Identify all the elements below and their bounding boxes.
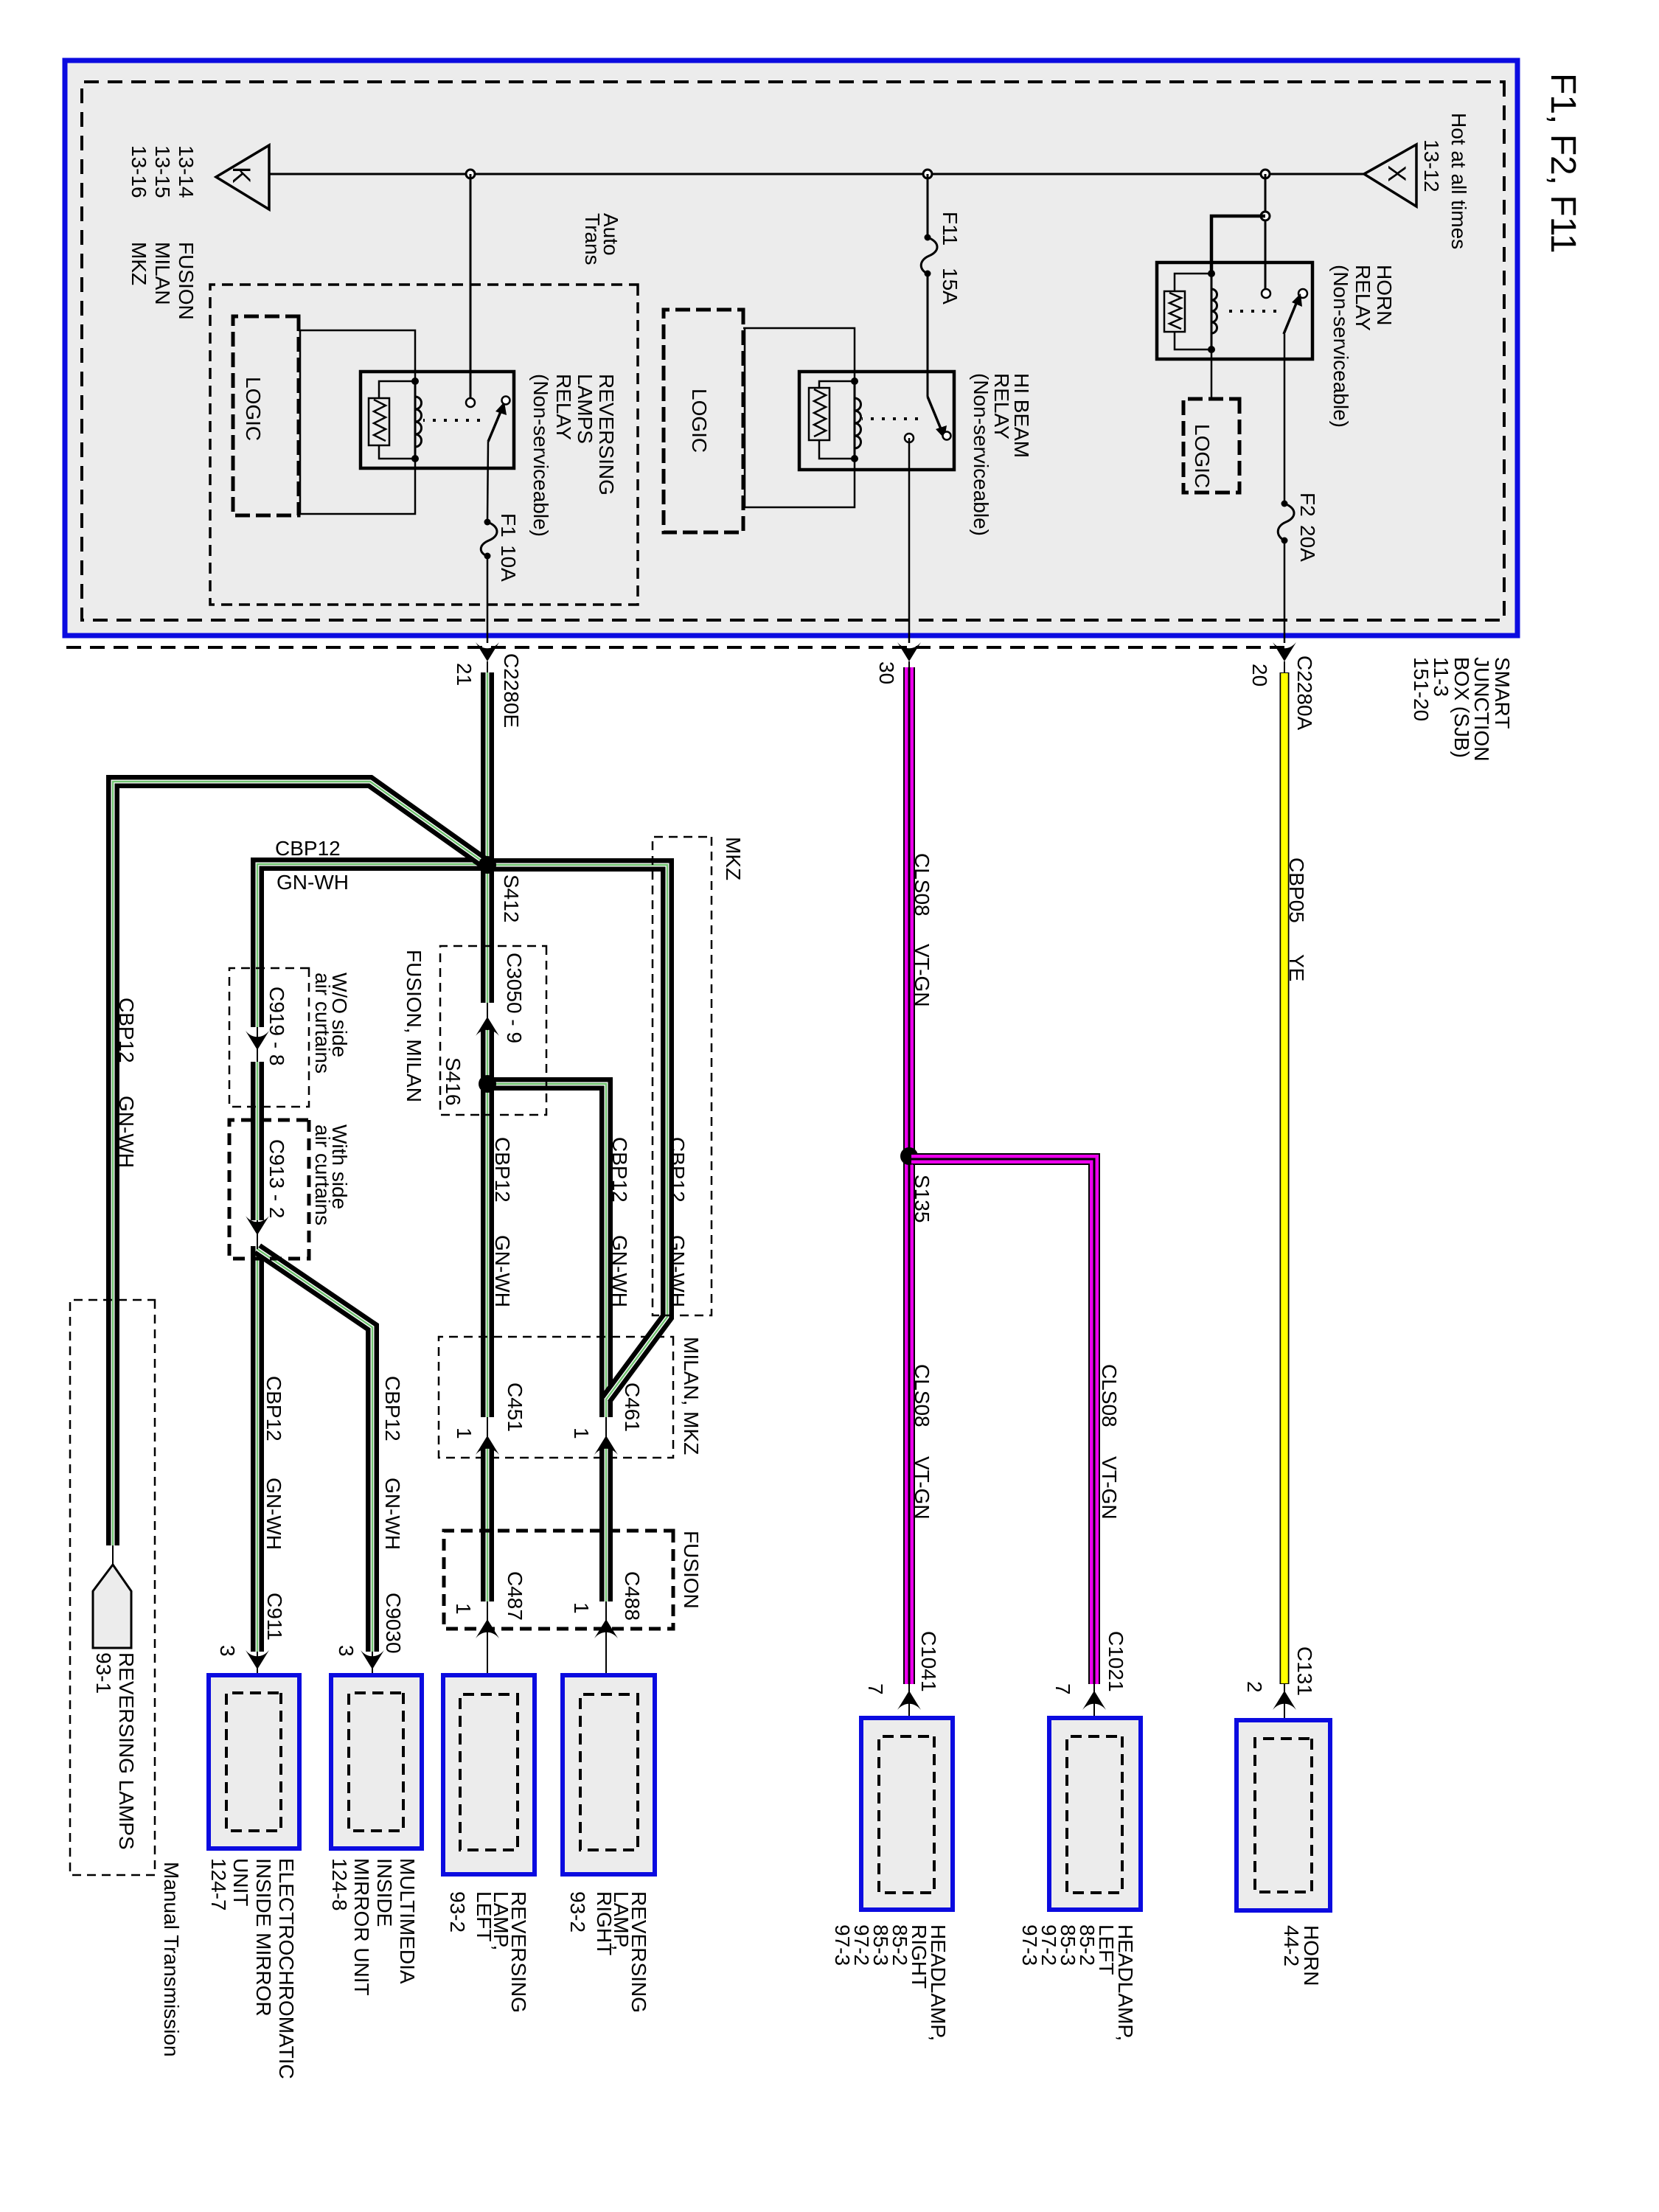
svg-text:1: 1 [570,1602,593,1614]
svg-text:C1041: C1041 [917,1631,940,1692]
wire reversing output [487,442,488,522]
svg-text:air curtains: air curtains [311,973,334,1074]
svg-text:Manual Transmission: Manual Transmission [160,1862,183,2057]
relay HI BEAM box [799,372,954,470]
svg-text:YE: YE [1285,954,1308,981]
logic box hi-beam [664,310,743,532]
relay REVERSING LAMPS box [361,372,514,468]
svg-text:MKZ: MKZ [128,242,150,285]
svg-text:CLS08: CLS08 [911,1364,933,1427]
option box Manual Transmission [70,1300,155,1875]
component REVERSING LAMP RIGHT box [563,1675,655,1874]
fuse F11 15A [925,234,931,241]
svg-text:HORN: HORN [1373,265,1396,325]
SJB outside dashed boundary [66,646,1284,649]
junction dot horn coil tap [1261,212,1270,220]
wire into reversing lamp left [487,1638,488,1695]
svg-text:GN-WH: GN-WH [381,1478,404,1550]
connector C919-8 arrow [257,1027,258,1062]
hi-beam relay coil [854,381,856,459]
hi-beam relay switch [928,397,942,431]
option box MKZ [653,837,712,1315]
svg-text:C2280A: C2280A [1293,655,1316,731]
svg-text:LOGIC: LOGIC [1191,424,1214,488]
svg-text:CLS08: CLS08 [911,853,933,917]
logic box reversing [233,316,299,515]
svg-text:13-14: 13-14 [175,145,198,198]
connector C9030 arrow [372,1652,373,1674]
wire to exit [1284,540,1286,643]
svg-text:LOGIC: LOGIC [688,389,711,453]
splice S416 [479,1075,496,1093]
SJB blue box [65,60,1517,636]
svg-text:1: 1 [453,1427,476,1439]
connector C1041 arrow [908,1684,910,1711]
horn relay coil resistor [1175,274,1211,291]
svg-text:C488: C488 [621,1571,644,1621]
wire reversing feed [470,174,472,403]
svg-text:CBP05: CBP05 [1285,858,1308,923]
svg-text:(Non-serviceable): (Non-serviceable) [529,374,552,537]
svg-text:VT-GN: VT-GN [911,944,933,1007]
component MULTIMEDIA box [331,1675,422,1848]
logic box horn [1183,399,1239,493]
junction dot reversing feed [466,170,475,178]
svg-text:CBP12: CBP12 [666,1137,689,1203]
fuse F1 10A [484,519,491,526]
svg-text:RELAY: RELAY [1352,265,1374,331]
label HORN RELAY [1329,265,1396,428]
connector C2280E exit arrow [476,642,499,661]
svg-text:RELAY: RELAY [990,373,1013,439]
wire horn relay output [1284,333,1284,335]
svg-text:MIRROR UNIT: MIRROR UNIT [350,1858,373,1996]
component HEADLAMP LEFT box [1049,1718,1141,1910]
component HEADLAMP RIGHT box [861,1718,953,1910]
svg-text:S135: S135 [911,1175,933,1222]
svg-text:INSIDE: INSIDE [373,1858,396,1927]
svg-text:F2: F2 [1296,493,1319,517]
connector C131 arrow [1284,1684,1285,1709]
wire branch S416 up to C461/C488 [487,1084,606,1601]
svg-text:13-16: 13-16 [128,145,150,198]
svg-text:30: 30 [875,661,898,684]
component ELECTROCHROMATIC box [209,1675,299,1848]
svg-text:X: X [1382,165,1411,182]
svg-text:10A: 10A [497,545,520,582]
svg-text:C3050 - 9: C3050 - 9 [503,953,526,1043]
svg-text:INSIDE MIRROR: INSIDE MIRROR [252,1858,275,2017]
horn relay dashed link [1228,310,1276,313]
svg-text:Trans: Trans [581,213,604,265]
wire tail to pentagon [112,1545,114,1566]
svg-text:20: 20 [1248,664,1271,686]
wire CBP05 YE yellow [1280,672,1290,1684]
svg-text:C9030: C9030 [382,1593,405,1654]
wire bus [270,173,1364,175]
svg-text:3: 3 [335,1645,358,1657]
svg-text:VT-GN: VT-GN [911,1456,933,1520]
label HI BEAM RELAY [970,373,1033,536]
connector C2280A exit arrow [1273,642,1296,661]
option box Auto Trans [210,285,638,605]
connector C461 arrow [605,1417,607,1447]
svg-text:K: K [227,167,255,184]
component REVERSING LAMP LEFT box [443,1675,535,1874]
svg-text:MILAN, MKZ: MILAN, MKZ [680,1337,703,1455]
connector C451 arrow [487,1417,488,1447]
svg-text:97-3: 97-3 [1018,1924,1041,1966]
svg-text:GN-WH: GN-WH [666,1235,689,1307]
wire violet branch to headlamp left [913,1159,1094,1684]
option box FUSION [444,1531,673,1629]
option box FUSION, MILAN [440,946,546,1115]
svg-text:S412: S412 [500,874,523,922]
connector C3050-9 arrow [487,1003,488,1030]
wire horn feed [1265,174,1267,293]
connector C911 arrow [257,1652,258,1674]
svg-text:3: 3 [216,1645,239,1657]
svg-text:C451: C451 [504,1382,526,1432]
wire horn coil branch [1211,216,1265,274]
svg-text:CBP12: CBP12 [381,1376,404,1441]
splice S412 [479,856,496,874]
SJB inner dashed border [82,82,1504,620]
svg-text:7: 7 [864,1683,887,1695]
junction dot hi-beam feed [923,170,932,178]
svg-text:15A: 15A [939,268,961,305]
connector C488 arrow [605,1601,607,1638]
svg-text:MKZ: MKZ [722,837,745,880]
fuse F2 20A [1281,501,1288,507]
wire MKZ branch from S412 [487,865,667,1399]
wire into horn box [1284,1709,1285,1740]
wire hi-beam output [908,438,911,643]
svg-text:UNIT: UNIT [229,1858,252,1906]
svg-text:21: 21 [453,663,476,686]
svg-text:CBP12: CBP12 [491,1137,514,1203]
svg-text:CBP12: CBP12 [608,1137,631,1203]
svg-text:2: 2 [1243,1681,1266,1693]
svg-text:FUSION, MILAN: FUSION, MILAN [403,950,425,1102]
node K off-page triangle [216,145,269,209]
node X power feed triangle [1364,145,1416,206]
svg-text:LEFT: LEFT [473,1891,495,1941]
svg-text:S416: S416 [442,1057,465,1105]
svg-text:93-2: 93-2 [446,1891,469,1933]
svg-text:F1, F2, F11: F1, F2, F11 [1543,73,1582,254]
svg-text:VT-GN: VT-GN [1098,1456,1121,1520]
wire CLS08 VT-GN violet [903,667,915,1684]
svg-text:SMART: SMART [1491,657,1514,729]
svg-text:MULTIMEDIA: MULTIMEDIA [396,1858,419,1984]
horn relay switch [1262,289,1270,298]
svg-text:REVERSING LAMPS: REVERSING LAMPS [115,1652,138,1850]
reversing relay dashed link [423,419,480,422]
option box MILAN, MKZ [439,1337,673,1458]
svg-text:C1021: C1021 [1105,1631,1127,1692]
svg-text:CBP12: CBP12 [115,998,138,1063]
relay HORN box [1157,262,1312,359]
svg-text:13-12: 13-12 [1420,139,1443,192]
connector C913-2 arrow [257,1220,258,1249]
wire hi-beam feed [927,174,929,237]
connector exit 30 arrow [897,642,921,661]
svg-text:C913 - 2: C913 - 2 [265,1139,288,1218]
svg-text:F11: F11 [939,212,961,246]
wires reversing coil to logic [299,330,415,381]
connector REVERSING LAMPS pentagon [93,1565,131,1648]
svg-text:Hot at all times: Hot at all times [1447,113,1470,249]
svg-text:124-7: 124-7 [207,1858,230,1911]
svg-text:C487: C487 [504,1571,526,1621]
svg-text:F1: F1 [497,513,520,538]
SJB name label [1410,657,1514,762]
svg-text:C911: C911 [263,1593,286,1641]
svg-text:CBP12: CBP12 [275,837,341,860]
horn relay coil [1211,274,1213,349]
svg-text:7: 7 [1051,1683,1074,1695]
svg-text:93-2: 93-2 [566,1891,589,1933]
wire diagonal to reversing lamps manual [113,782,487,1545]
svg-text:1: 1 [452,1603,475,1615]
connector C487 arrow [487,1601,488,1638]
svg-text:RELAY: RELAY [552,374,575,440]
wires hi-beam coil to logic [743,328,855,381]
svg-text:C919 - 8: C919 - 8 [265,987,288,1065]
svg-text:GN-WH: GN-WH [115,1096,138,1168]
svg-text:BOX (SJB): BOX (SJB) [1450,657,1473,758]
junction dot horn feed [1261,170,1270,178]
svg-text:air curtains: air curtains [311,1124,334,1225]
reversing relay coil [414,381,417,459]
svg-text:13-15: 13-15 [151,145,174,198]
svg-text:44-2: 44-2 [1280,1925,1303,1966]
component HORN box [1237,1720,1330,1910]
wire fork to C9030 [257,1249,372,1652]
svg-text:GN-WH: GN-WH [262,1478,285,1550]
reversing relay coil resistor [379,381,415,398]
reversing relay switch [466,398,475,407]
wire into reversing lamp right [605,1638,607,1695]
svg-text:LAMPS: LAMPS [574,374,597,444]
svg-text:C461: C461 [621,1382,644,1432]
svg-text:(Non-serviceable): (Non-serviceable) [1329,265,1352,428]
wire CBP12 GN-WH main C2280E to S412 [481,672,494,1601]
svg-text:151-20: 151-20 [1410,657,1433,721]
svg-text:CBP12: CBP12 [262,1376,285,1441]
hi-beam relay coil resistor [819,381,855,388]
svg-text:LOGIC: LOGIC [242,377,265,441]
label REVERSING LAMPS RELAY [529,374,618,537]
wire S412 down branch to C919/C913 [257,864,487,1652]
option box With side air curtains [229,1120,309,1259]
svg-text:GN-WH: GN-WH [491,1235,514,1307]
svg-text:124-8: 124-8 [328,1858,351,1911]
splice S135 [900,1147,918,1165]
svg-text:C2280E: C2280E [500,653,523,728]
svg-text:REVERSING: REVERSING [595,374,618,495]
svg-text:1: 1 [570,1427,593,1439]
svg-text:97-3: 97-3 [831,1924,854,1966]
svg-text:FUSION: FUSION [175,242,198,320]
svg-text:ELECTROCHROMATIC: ELECTROCHROMATIC [275,1858,298,2079]
connector C1021 arrow [1093,1684,1095,1711]
svg-text:93-1: 93-1 [92,1652,115,1694]
svg-text:GN-WH: GN-WH [276,871,349,894]
hi-beam relay dashed link [862,417,918,420]
svg-text:RIGHT: RIGHT [593,1891,616,1955]
svg-text:(Non-serviceable): (Non-serviceable) [970,373,992,536]
svg-text:GN-WH: GN-WH [608,1235,631,1307]
svg-text:MILAN: MILAN [151,242,174,305]
svg-text:CLS08: CLS08 [1098,1364,1121,1427]
svg-text:20A: 20A [1296,525,1319,562]
svg-text:FUSION: FUSION [680,1531,703,1609]
option box W/O side air curtains [229,968,309,1107]
svg-text:C131: C131 [1293,1646,1316,1696]
wire horn relay to logic [1211,349,1213,399]
